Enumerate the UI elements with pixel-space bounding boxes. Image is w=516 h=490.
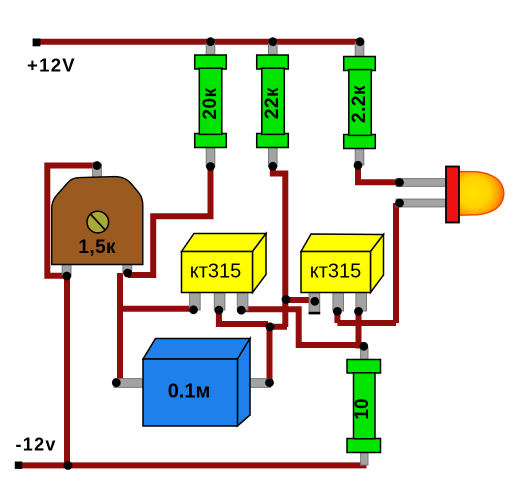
svg-text:+12V: +12V <box>27 55 76 76</box>
svg-text:10: 10 <box>352 398 373 419</box>
svg-text:кт315: кт315 <box>190 261 242 283</box>
svg-text:2.2к: 2.2к <box>349 85 370 123</box>
svg-text:0.1м: 0.1м <box>168 381 211 403</box>
svg-text:-12v: -12v <box>16 435 57 455</box>
svg-text:22к: 22к <box>262 87 283 119</box>
svg-text:1,5к: 1,5к <box>78 237 116 258</box>
svg-text:кт315: кт315 <box>310 261 362 283</box>
svg-text:20к: 20к <box>200 87 221 119</box>
